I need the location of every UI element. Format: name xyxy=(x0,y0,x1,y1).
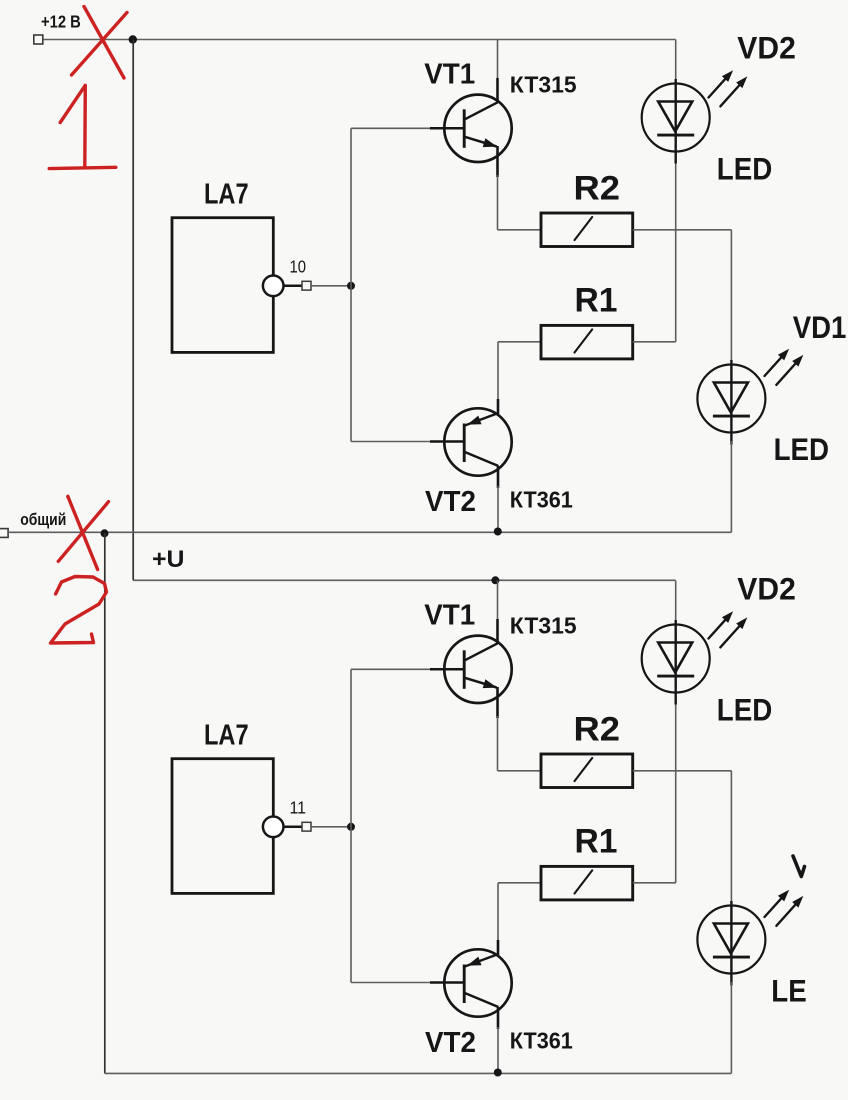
label VD1 partial stroke (2) xyxy=(793,856,805,877)
svg-text:R2: R2 xyxy=(574,169,621,207)
LED VD1 light arrows (1) xyxy=(765,349,804,385)
wire VT2 emitter lead (1) xyxy=(497,399,500,414)
LED VD1 light arrows (2) xyxy=(765,890,804,926)
svg-text:R2: R2 xyxy=(574,710,621,748)
node pin 10 bus junction xyxy=(347,282,355,290)
label LA7 (1) xyxy=(204,178,249,210)
wire R1 right to VD2 cathode (1) xyxy=(633,159,676,342)
wire VD1 anode lead (2) xyxy=(730,771,732,906)
LED VD1 (2) xyxy=(697,901,765,986)
wire common rail xyxy=(8,531,731,533)
svg-text:+U: +U xyxy=(152,546,185,573)
svg-text:VT1: VT1 xyxy=(424,59,475,91)
label VT2 (2) xyxy=(425,1027,476,1059)
svg-text:VT1: VT1 xyxy=(424,600,475,632)
wire pin 10 stub xyxy=(284,285,303,288)
label KT315 (1) xyxy=(510,72,577,98)
wire VT1 base (1) xyxy=(351,127,464,129)
wire R2 left (2) xyxy=(498,770,542,772)
transistor VT2 KT361 (2) xyxy=(444,949,511,1016)
label VD1 xyxy=(793,309,847,345)
label VT2 (1) xyxy=(425,486,476,518)
label VT1 (1) xyxy=(424,59,475,91)
pin 10 square pad xyxy=(302,281,311,290)
resistor R1 (1) xyxy=(541,325,633,359)
wire +12V rail xyxy=(43,39,676,41)
wire VT2 emitter lead (2) xyxy=(497,940,500,955)
svg-text:VD2: VD2 xyxy=(737,29,796,65)
wire VT2 collector lead (1) xyxy=(497,466,500,532)
wire R2 right to VD1 drop (2) xyxy=(633,770,732,772)
LED VD2 (1) xyxy=(642,79,710,164)
wire +U rail xyxy=(133,579,676,581)
svg-text:VD2: VD2 xyxy=(737,570,796,606)
node VT2 common junction (2) xyxy=(494,1069,502,1077)
red numeral 2 xyxy=(51,577,107,644)
wire R1 left (1) xyxy=(498,342,541,400)
wire VT2 base (1) xyxy=(351,441,464,443)
transistor VT1 KT315 (1) xyxy=(444,95,511,162)
svg-text:VD1: VD1 xyxy=(793,309,847,345)
label R1 (2) xyxy=(575,823,618,861)
label R2 (1) xyxy=(574,169,621,207)
label pin 10 xyxy=(290,257,307,277)
transistor VT2 KT361 (1) xyxy=(444,408,511,475)
label LA7 (2) xyxy=(204,719,249,751)
svg-text:LED: LED xyxy=(717,692,773,728)
wire VT1 collector lead (2) xyxy=(497,581,499,645)
svg-text:11: 11 xyxy=(290,798,307,818)
wire VT1 emitter lead (1) xyxy=(496,146,499,230)
wire pin 10 to bus xyxy=(311,285,351,287)
pin 11 square pad xyxy=(302,822,311,831)
label +12 В xyxy=(41,12,81,32)
wire VD1 anode lead (1) xyxy=(730,230,732,365)
IC LA7 box (2) xyxy=(172,759,273,894)
LED VD2 (2) xyxy=(642,620,710,705)
svg-text:+12 В: +12 В xyxy=(41,12,81,32)
label LE lower (2) xyxy=(771,973,806,1009)
svg-text:КТ315: КТ315 xyxy=(510,613,577,639)
node VT2 common junction (1) xyxy=(494,528,502,536)
wire VT1 emitter lead (2) xyxy=(496,687,499,771)
resistor R2 (1) xyxy=(541,213,633,247)
svg-text:КТ361: КТ361 xyxy=(510,1028,573,1054)
label LED upper (1) xyxy=(717,151,773,187)
pin 11 inverter bubble xyxy=(263,817,284,838)
wire base bus vertical (1) xyxy=(350,128,352,441)
red cross 1 xyxy=(72,7,128,79)
label VD2 (1) xyxy=(737,29,796,65)
label KT361 (1) xyxy=(510,487,573,513)
wire VD1 cathode to common xyxy=(730,441,732,532)
label +U xyxy=(152,546,185,573)
node common junction xyxy=(101,529,109,537)
wire left vertical rail (+12V to +U) xyxy=(132,40,134,581)
resistor R1 (2) xyxy=(541,866,633,900)
wire VD2 anode lead (1) xyxy=(675,40,677,85)
label общий xyxy=(20,510,66,529)
wire bottom rail xyxy=(105,1072,732,1074)
node pin 11 bus junction xyxy=(347,823,355,831)
svg-text:R1: R1 xyxy=(575,282,618,320)
wire VT1 base (2) xyxy=(351,668,464,670)
wire R1 left (2) xyxy=(498,883,541,941)
svg-text:VT2: VT2 xyxy=(425,1027,476,1059)
label VD2 (2) xyxy=(737,570,796,606)
svg-text:LED: LED xyxy=(774,431,830,467)
wire pin 11 stub xyxy=(284,826,303,829)
wire base bus vertical (2) xyxy=(350,669,352,982)
pin 10 inverter bubble xyxy=(263,276,284,297)
wire R2 right to VD1 drop (1) xyxy=(633,229,732,231)
label KT315 (2) xyxy=(510,613,577,639)
label LED lower xyxy=(774,431,830,467)
LED VD1 (1) xyxy=(697,360,765,445)
IC LA7 box (1) xyxy=(172,218,273,353)
node +U junction xyxy=(491,576,499,584)
svg-text:VT2: VT2 xyxy=(425,486,476,518)
svg-text:общий: общий xyxy=(20,510,66,529)
node +12V junction xyxy=(129,35,137,43)
label LED upper (2) xyxy=(717,692,773,728)
wire pin 11 to bus xyxy=(311,826,351,828)
label VT1 (2) xyxy=(424,600,475,632)
resistor R2 (2) xyxy=(541,754,633,788)
svg-text:КТ361: КТ361 xyxy=(510,487,573,513)
svg-text:R1: R1 xyxy=(575,823,618,861)
terminal +12V xyxy=(34,35,43,44)
svg-text:LA7: LA7 xyxy=(204,719,249,751)
svg-text:LA7: LA7 xyxy=(204,178,249,210)
red numeral 1 xyxy=(49,85,116,168)
label R1 (1) xyxy=(575,282,618,320)
svg-text:LED: LED xyxy=(717,151,773,187)
wire R1 right to VD2 cathode (2) xyxy=(633,700,676,883)
svg-text:КТ315: КТ315 xyxy=(510,72,577,98)
LED VD2 light arrows (2) xyxy=(709,611,748,647)
svg-text:LE: LE xyxy=(771,973,806,1009)
wire VT2 base (2) xyxy=(351,982,464,984)
wire VT2 collector lead (2) xyxy=(497,1007,500,1073)
wire VD1 cathode to bottom rail (2) xyxy=(730,982,732,1073)
red cross 2 xyxy=(58,496,108,569)
svg-text:10: 10 xyxy=(290,257,307,277)
LED VD2 light arrows (1) xyxy=(709,70,748,106)
terminal общий xyxy=(0,529,8,538)
label pin 11 xyxy=(290,798,307,818)
wire VD2 anode lead (2) xyxy=(675,581,677,626)
label KT361 (2) xyxy=(510,1028,573,1054)
wire R2 left (1) xyxy=(498,229,542,231)
label R2 (2) xyxy=(574,710,621,748)
transistor VT1 KT315 (2) xyxy=(444,636,511,703)
wire VT1 collector lead (1) xyxy=(497,40,499,104)
wire circuit-2 left rail xyxy=(104,533,106,1073)
